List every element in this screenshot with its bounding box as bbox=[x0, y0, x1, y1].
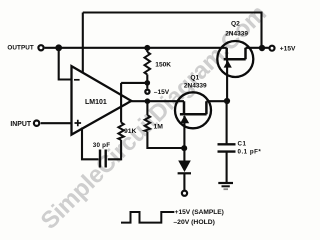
svg-text:OUTPUT: OUTPUT bbox=[7, 45, 34, 52]
svg-text:30 pF: 30 pF bbox=[93, 142, 110, 149]
svg-text:Q1: Q1 bbox=[190, 74, 199, 81]
svg-text:C1: C1 bbox=[238, 141, 247, 148]
svg-text:–15V: –15V bbox=[154, 89, 170, 96]
svg-text:–20V (HOLD): –20V (HOLD) bbox=[173, 219, 215, 226]
svg-text:2N4339: 2N4339 bbox=[184, 83, 207, 90]
svg-text:+15V (SAMPLE): +15V (SAMPLE) bbox=[175, 209, 224, 216]
svg-text:+15V: +15V bbox=[280, 46, 296, 53]
svg-text:0.1 pF*: 0.1 pF* bbox=[238, 149, 262, 156]
svg-text:91K: 91K bbox=[124, 128, 137, 135]
svg-text:1M: 1M bbox=[154, 123, 164, 130]
svg-text:INPUT: INPUT bbox=[10, 121, 31, 128]
svg-text:LM101: LM101 bbox=[85, 99, 107, 106]
svg-text:Q2: Q2 bbox=[231, 21, 240, 28]
svg-text:2N4339: 2N4339 bbox=[225, 30, 248, 37]
svg-text:150K: 150K bbox=[155, 62, 171, 69]
